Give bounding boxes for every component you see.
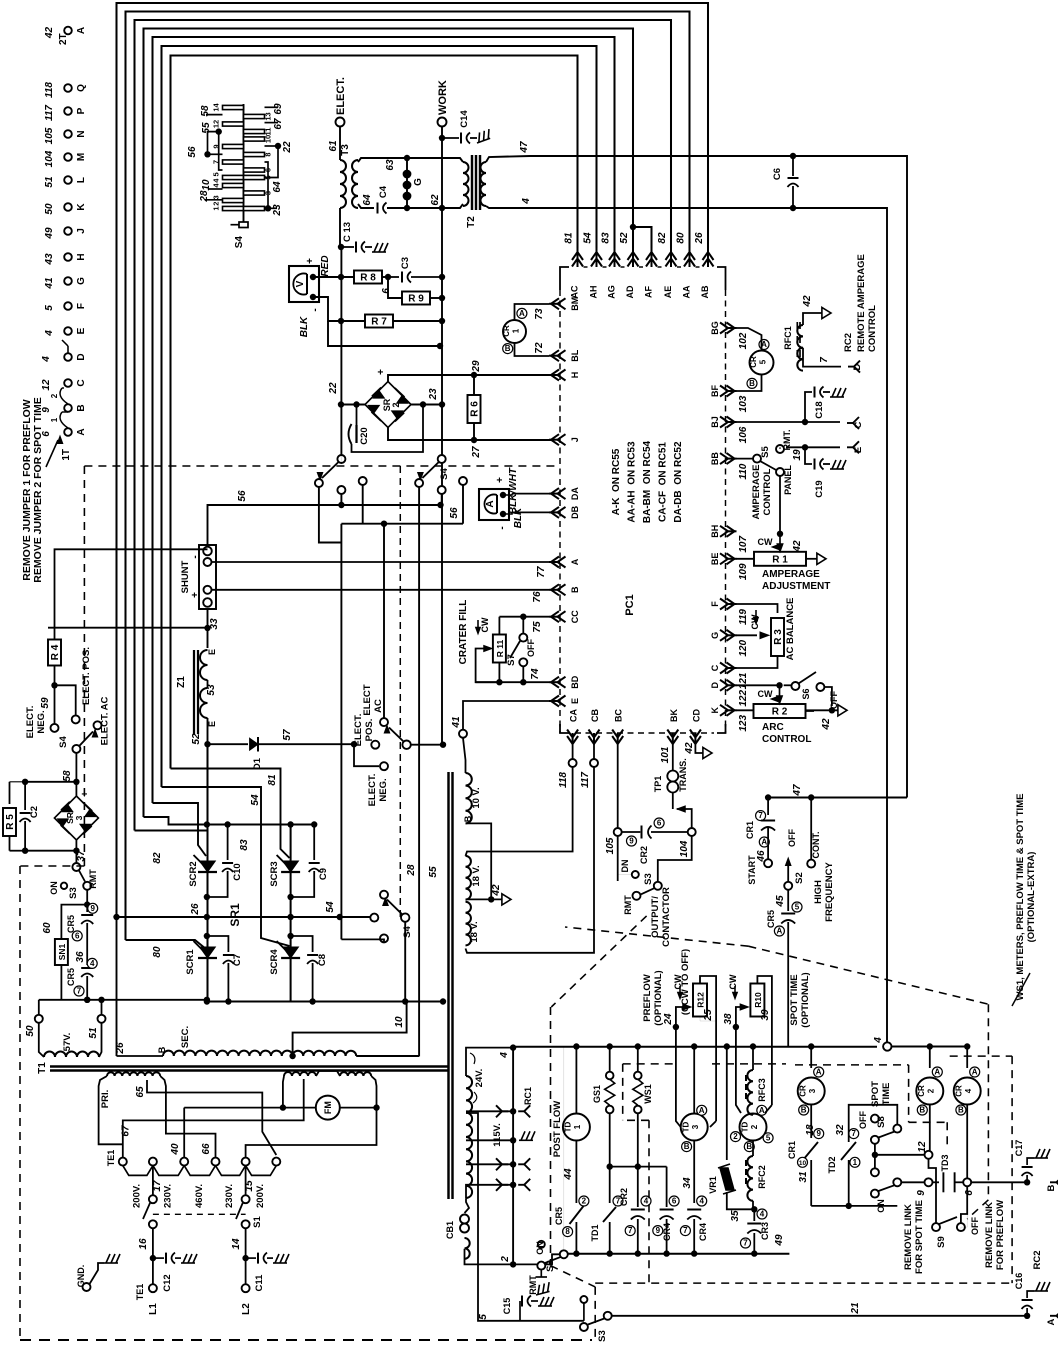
svg-text:G: G — [710, 632, 720, 639]
svg-text:POST FLOW: POST FLOW — [552, 1101, 563, 1158]
svg-text:FREQUENCY: FREQUENCY — [824, 862, 835, 922]
svg-text:9: 9 — [816, 1129, 821, 1138]
svg-text:+: + — [80, 791, 91, 797]
svg-text:54: 54 — [325, 901, 336, 913]
svg-text:RFC2: RFC2 — [757, 1165, 767, 1189]
transformer T2 main HF transformer — [439, 141, 532, 228]
svg-text:L1: L1 — [148, 1303, 159, 1315]
svg-text:+: + — [376, 369, 387, 375]
svg-text:CR4: CR4 — [698, 1223, 708, 1241]
svg-text:H: H — [76, 253, 87, 260]
svg-text:200V.: 200V. — [131, 1184, 142, 1208]
svg-text:7: 7 — [851, 1129, 856, 1138]
wire 81 to SCR3 gate — [171, 769, 290, 859]
svg-text:47: 47 — [792, 784, 803, 797]
svg-text:83: 83 — [239, 839, 250, 851]
svg-text:9: 9 — [90, 904, 95, 913]
line L1 with C12 — [135, 1228, 197, 1315]
svg-text:AE: AE — [663, 286, 673, 299]
wire 4 to right edge — [530, 208, 887, 1047]
svg-text:R 5: R 5 — [5, 814, 16, 830]
svg-text:B: B — [505, 344, 511, 353]
svg-text:TE1: TE1 — [135, 1284, 145, 1301]
svg-text:38: 38 — [723, 1013, 734, 1025]
svg-text:SR1: SR1 — [228, 903, 242, 927]
svg-text:RC2: RC2 — [843, 333, 854, 352]
label WS1 METERS optional extra — [1012, 794, 1037, 1006]
wire to C9/C10 top row — [144, 817, 207, 825]
svg-text:8: 8 — [264, 152, 273, 156]
svg-text:5: 5 — [766, 1133, 771, 1142]
svg-text:A: A — [777, 927, 783, 936]
wire AD-AF branch — [630, 224, 652, 248]
svg-text:NEG.: NEG. — [378, 778, 389, 801]
svg-text:AC BALANCE: AC BALANCE — [785, 598, 796, 661]
svg-text:CA-CF ON RC51: CA-CF ON RC51 — [658, 442, 669, 522]
svg-text:WORK: WORK — [437, 80, 449, 115]
svg-text:46: 46 — [756, 850, 767, 863]
switch S3 bottom poles — [528, 1047, 612, 1342]
svg-text:2: 2 — [500, 1256, 511, 1263]
svg-text:S7: S7 — [506, 654, 517, 666]
capacitor C16 — [1014, 1273, 1050, 1316]
capacitor C13 with ground — [338, 222, 388, 253]
svg-text:PC1: PC1 — [624, 594, 636, 615]
relay contact CR1 start circuit — [745, 794, 775, 884]
svg-text:67: 67 — [121, 1125, 132, 1137]
18V windings — [466, 856, 512, 946]
polarity selector S4 elect neg/ac/pos upper — [25, 647, 111, 785]
svg-text:+: + — [495, 477, 506, 483]
svg-text:4: 4 — [90, 959, 95, 968]
svg-text:64: 64 — [362, 194, 373, 206]
svg-text:M: M — [76, 153, 87, 161]
svg-text:BH: BH — [710, 525, 720, 538]
svg-text:NEG.: NEG. — [36, 710, 47, 733]
svg-text:53: 53 — [206, 684, 217, 696]
svg-text:42: 42 — [802, 295, 813, 308]
svg-text:BB: BB — [710, 452, 720, 465]
svg-text:E: E — [207, 649, 217, 655]
svg-text:230V.: 230V. — [224, 1184, 235, 1208]
svg-text:OFF: OFF — [970, 1217, 980, 1235]
primary tap selector row — [106, 1108, 280, 1208]
SHUNT — [180, 545, 549, 609]
svg-text:K: K — [76, 203, 87, 211]
svg-text:28: 28 — [406, 864, 417, 877]
terminal E wire 19 and C19 — [780, 441, 864, 497]
svg-text:CONT.: CONT. — [811, 832, 821, 859]
svg-text:4: 4 — [873, 1037, 884, 1044]
svg-text:22: 22 — [282, 141, 293, 154]
svg-text:V: V — [295, 280, 306, 287]
svg-text:33: 33 — [209, 618, 220, 630]
svg-text:CC: CC — [570, 610, 580, 623]
svg-text:106: 106 — [738, 426, 749, 443]
svg-text:S3: S3 — [68, 887, 79, 899]
svg-text:6: 6 — [381, 288, 392, 294]
svg-text:82: 82 — [657, 232, 668, 244]
relay contact CR1 HF — [502, 304, 549, 356]
svg-text:A: A — [934, 1068, 940, 1077]
svg-text:9: 9 — [656, 1226, 661, 1235]
svg-text:S6: S6 — [801, 688, 811, 699]
labels remove link — [903, 1200, 1006, 1274]
svg-text:49: 49 — [44, 227, 55, 240]
svg-text:BF: BF — [710, 385, 720, 397]
svg-text:D: D — [710, 682, 720, 689]
svg-text:26: 26 — [190, 903, 201, 916]
svg-text:E: E — [570, 698, 580, 704]
svg-text:ON: ON — [535, 1241, 545, 1255]
svg-text:ON: ON — [49, 881, 59, 895]
svg-text:C2: C2 — [29, 806, 40, 818]
svg-text:TD3: TD3 — [940, 1154, 950, 1171]
svg-text:PRI.: PRI. — [100, 1090, 111, 1108]
svg-text:42: 42 — [491, 884, 502, 897]
svg-text:S4: S4 — [402, 925, 413, 937]
svg-text:27: 27 — [471, 446, 482, 459]
snubber top row wire — [204, 821, 318, 827]
svg-text:C12: C12 — [162, 1274, 173, 1291]
svg-text:B: B — [746, 1142, 752, 1151]
svg-text:C18: C18 — [814, 401, 825, 418]
svg-text:CONTROL: CONTROL — [762, 734, 811, 745]
svg-text:7: 7 — [819, 357, 830, 363]
24V leader label — [479, 1050, 483, 1106]
svg-text:CA: CA — [569, 709, 579, 722]
wire loop x116.5 — [117, 3, 709, 917]
svg-text:65: 65 — [135, 1086, 146, 1098]
svg-text:104: 104 — [44, 150, 55, 167]
svg-text:45: 45 — [775, 895, 786, 908]
svg-text:J: J — [570, 437, 580, 442]
svg-text:E: E — [853, 447, 864, 453]
secondary SEC winding — [117, 1026, 357, 1059]
svg-text:5: 5 — [478, 1314, 489, 1320]
inductor RFC1 — [783, 295, 863, 373]
svg-text:R 11: R 11 — [495, 639, 505, 657]
svg-text:PREFLOW: PREFLOW — [642, 974, 653, 1022]
svg-text:119: 119 — [738, 609, 749, 625]
wire loop x161.5 — [162, 46, 597, 787]
svg-text:ELECT. AC: ELECT. AC — [100, 696, 111, 745]
svg-text:BE: BE — [710, 553, 720, 566]
ELECT AC contact wire up — [383, 524, 385, 718]
timer contact TD2 and S8 spot time — [811, 1081, 932, 1209]
svg-text:C17: C17 — [1014, 1140, 1024, 1157]
wire 26 left bus to SCR bus — [113, 903, 207, 920]
svg-text:3: 3 — [808, 1088, 817, 1093]
svg-text:13: 13 — [264, 112, 273, 120]
svg-text:BL: BL — [570, 349, 580, 361]
svg-text:A: A — [76, 27, 87, 34]
svg-text:AD: AD — [625, 285, 635, 298]
transformer T1 core — [37, 1062, 448, 1074]
svg-text:C16: C16 — [1014, 1273, 1024, 1290]
svg-text:26: 26 — [694, 232, 705, 245]
svg-text:DB: DB — [570, 505, 580, 518]
svg-text:A: A — [699, 1106, 705, 1115]
svg-text:77: 77 — [536, 566, 547, 578]
svg-text:104: 104 — [679, 840, 690, 857]
svg-text:C10: C10 — [232, 863, 243, 880]
resistor R8 — [313, 271, 388, 284]
svg-text:BC: BC — [614, 709, 624, 722]
svg-text:C: C — [76, 379, 87, 386]
svg-text:101: 101 — [660, 746, 671, 763]
svg-text:Q: Q — [76, 84, 87, 92]
svg-text:2: 2 — [927, 1088, 936, 1093]
svg-text:40: 40 — [170, 1143, 181, 1156]
svg-text:52: 52 — [191, 733, 202, 745]
snubber C7 — [207, 936, 243, 1005]
svg-text:34: 34 — [682, 1177, 693, 1189]
svg-text:SCR3: SCR3 — [269, 861, 280, 886]
switch ON and TD3 link — [871, 1154, 1058, 1212]
24V control bus top — [513, 1037, 970, 1051]
svg-text:OFF: OFF — [526, 639, 536, 657]
svg-text:118: 118 — [558, 772, 569, 788]
switch S5 panel/remote — [736, 430, 793, 534]
svg-text:67: 67 — [273, 118, 284, 130]
snubber C8 — [291, 936, 328, 1005]
potentiometer R10 spot time — [723, 972, 811, 1113]
svg-text:35: 35 — [730, 1210, 741, 1222]
svg-text:7: 7 — [628, 1226, 633, 1235]
svg-text:CW: CW — [673, 974, 683, 989]
svg-text:23: 23 — [272, 204, 283, 217]
svg-text:22: 22 — [328, 382, 339, 395]
svg-text:TE1: TE1 — [106, 1150, 116, 1167]
wire 47 start bus — [768, 797, 907, 799]
control bus bottom wire 49 — [568, 1234, 790, 1257]
svg-text:102: 102 — [738, 332, 749, 349]
svg-text:42: 42 — [821, 718, 832, 731]
svg-text:57: 57 — [282, 729, 293, 741]
svg-text:SCR1: SCR1 — [185, 949, 196, 975]
svg-text:A: A — [761, 838, 767, 847]
svg-text:117: 117 — [44, 105, 55, 121]
svg-text:+: + — [305, 258, 316, 264]
wire CB 117 to 18V winding bottom — [466, 741, 599, 953]
svg-text:122: 122 — [738, 690, 749, 707]
svg-text:SHUNT: SHUNT — [180, 560, 191, 593]
svg-text:4: 4 — [699, 1197, 704, 1206]
svg-text:ELECT.: ELECT. — [335, 77, 347, 115]
svg-text:C14: C14 — [459, 110, 470, 128]
svg-text:B: B — [919, 1106, 925, 1115]
svg-text:POS.: POS. — [364, 719, 375, 742]
svg-text:59: 59 — [40, 697, 51, 709]
svg-text:7: 7 — [743, 1239, 748, 1248]
svg-text:6: 6 — [964, 1190, 975, 1196]
svg-text:CR2: CR2 — [639, 846, 649, 864]
svg-text:14: 14 — [212, 103, 221, 112]
PC1 bottom edge with down chevrons CA CB BC BK CD — [560, 709, 726, 744]
svg-text:(OPTIONAL-EXTRA): (OPTIONAL-EXTRA) — [1026, 852, 1037, 943]
wire CD to chassis — [684, 741, 712, 759]
svg-text:ELECT.: ELECT. — [25, 706, 36, 739]
switch S9 preflow link — [929, 1159, 981, 1248]
dashed boundary bottom control box — [551, 916, 647, 1340]
svg-text:-: - — [310, 308, 321, 311]
svg-text:CONTROL: CONTROL — [762, 468, 773, 515]
svg-text:CW: CW — [758, 537, 773, 547]
wire 50 51 to 57V winding — [25, 997, 210, 1039]
svg-text:25: 25 — [703, 1009, 714, 1022]
capacitor CR5 spot — [766, 890, 802, 1047]
svg-text:ON: ON — [876, 1199, 886, 1213]
svg-text:51: 51 — [44, 176, 55, 188]
svg-text:105: 105 — [605, 837, 616, 854]
svg-text:N: N — [76, 130, 87, 137]
svg-text:1: 1 — [50, 417, 59, 422]
svg-text:61: 61 — [328, 140, 339, 152]
svg-text:BLK/WHT: BLK/WHT — [508, 467, 519, 514]
svg-text:CW: CW — [758, 689, 773, 699]
svg-text:TRANS.: TRANS. — [678, 758, 688, 792]
svg-text:76: 76 — [532, 591, 543, 603]
svg-text:120: 120 — [738, 640, 749, 657]
svg-text:-: - — [190, 555, 201, 558]
wire 82 to SCR2 gate — [152, 803, 206, 864]
svg-text:R 8: R 8 — [360, 273, 376, 284]
svg-text:19: 19 — [792, 449, 803, 461]
svg-text:A: A — [485, 500, 496, 507]
switch S2 start/off/cont — [784, 784, 835, 922]
circuit breaker CB1 — [445, 1198, 560, 1267]
svg-text:SN1: SN1 — [57, 943, 67, 960]
svg-text:CR1: CR1 — [745, 821, 755, 839]
svg-text:RC2: RC2 — [1032, 1250, 1043, 1269]
svg-text:S1: S1 — [252, 1215, 263, 1227]
upper S4 output contactor poles — [315, 455, 467, 1056]
svg-text:TD1: TD1 — [590, 1224, 600, 1241]
potentiometer R3 AC balance — [736, 598, 796, 668]
terminal WORK — [437, 80, 449, 744]
svg-text:10: 10 — [799, 1160, 807, 1167]
svg-text:74: 74 — [530, 668, 541, 680]
thyristor SCR1 — [185, 933, 217, 975]
voltmeter V — [289, 255, 331, 337]
terminal C of RC2 — [736, 417, 864, 429]
svg-text:K: K — [710, 707, 720, 714]
resistor R6 — [468, 375, 481, 440]
switch gang dashed link S4 — [399, 466, 401, 920]
svg-text:12: 12 — [212, 120, 221, 128]
svg-text:28: 28 — [199, 190, 210, 203]
svg-text:5: 5 — [759, 359, 768, 364]
svg-text:52: 52 — [619, 232, 630, 244]
svg-text:14: 14 — [231, 1238, 242, 1250]
ground GND — [76, 1254, 120, 1291]
PC1 left edge with chevrons — [549, 290, 580, 733]
svg-text:L2: L2 — [241, 1303, 252, 1315]
svg-text:TP1: TP1 — [653, 776, 663, 793]
inductor RFC3 + timer TD2 + RFC2 chain — [731, 1047, 774, 1213]
svg-text:23: 23 — [428, 388, 439, 401]
svg-text:80: 80 — [676, 232, 687, 244]
svg-text:56: 56 — [187, 146, 198, 158]
wire 26 to T1 secondary — [115, 770, 126, 1056]
svg-text:GS1: GS1 — [592, 1085, 602, 1103]
svg-text:69: 69 — [273, 103, 284, 115]
svg-text:47: 47 — [519, 141, 530, 154]
10V winding — [463, 738, 491, 899]
svg-text:51: 51 — [88, 1027, 99, 1039]
svg-text:HIGH: HIGH — [813, 880, 824, 904]
svg-text:6: 6 — [657, 819, 662, 828]
svg-text:1T: 1T — [61, 449, 72, 461]
svg-text:109: 109 — [738, 563, 749, 580]
label OUTPUT/CONTACTOR — [650, 887, 691, 1015]
wire 73 BM to CR1 — [548, 303, 550, 305]
svg-text:ELECT.: ELECT. — [367, 774, 378, 807]
svg-text:10 V.: 10 V. — [471, 787, 482, 808]
svg-text:C 13: C 13 — [342, 222, 353, 242]
varistor VR1 — [708, 1047, 754, 1222]
svg-text:RMT: RMT — [623, 895, 633, 915]
bridge rectifier SR2 — [328, 369, 439, 428]
thyristor SCR2 — [188, 855, 217, 887]
svg-text:S5: S5 — [760, 445, 771, 457]
svg-text:24: 24 — [663, 1013, 674, 1026]
svg-text:1: 1 — [212, 206, 221, 210]
svg-text:D: D — [76, 353, 87, 360]
svg-text:42: 42 — [684, 742, 695, 755]
svg-text:2: 2 — [50, 393, 59, 398]
svg-text:RC1: RC1 — [523, 1087, 533, 1105]
svg-text:VR1: VR1 — [708, 1176, 718, 1194]
primary PRI winding — [99, 1071, 377, 1157]
C15 tap box — [466, 1113, 584, 1321]
resistor R7 — [313, 247, 445, 455]
svg-text:BK: BK — [669, 709, 679, 722]
range switch S4 wafer stack — [212, 103, 273, 249]
svg-text:3: 3 — [74, 815, 84, 820]
svg-text:2: 2 — [733, 1132, 738, 1141]
svg-text:BG: BG — [710, 321, 720, 335]
svg-text:4: 4 — [760, 1210, 765, 1219]
svg-text:R 1: R 1 — [772, 554, 788, 565]
svg-text:CB1: CB1 — [445, 1221, 455, 1239]
svg-text:A: A — [972, 1068, 978, 1077]
wire loop x170.5 — [171, 56, 578, 769]
timer TD3 with R12 preflow — [680, 1047, 708, 1254]
svg-text:41: 41 — [44, 277, 55, 290]
switch S3 on/rmt lower-left — [49, 863, 98, 908]
relay capacitor CR2 output — [605, 818, 688, 864]
svg-text:AH: AH — [589, 286, 599, 299]
svg-text:BJ: BJ — [710, 416, 720, 428]
potentiometer R2 arc control with S6 — [736, 672, 847, 745]
svg-text:55: 55 — [428, 866, 439, 878]
svg-text:460V.: 460V. — [194, 1184, 205, 1208]
svg-text:SCR2: SCR2 — [188, 861, 199, 886]
svg-text:CRATER FILL: CRATER FILL — [458, 600, 469, 665]
svg-text:D: D — [852, 363, 863, 370]
svg-text:AA: AA — [682, 285, 692, 298]
svg-text:50: 50 — [44, 203, 55, 215]
svg-text:117: 117 — [580, 772, 591, 788]
label RC2 REMOTE AMPERAGE CONTROL — [843, 254, 878, 352]
primary tap wire 67 — [121, 1079, 304, 1157]
svg-text:OFF: OFF — [787, 829, 797, 847]
svg-text:REMOVE JUMPER 2 FOR SPOT TIME: REMOVE JUMPER 2 FOR SPOT TIME — [32, 397, 44, 583]
svg-text:41: 41 — [451, 716, 462, 729]
57V winding — [39, 1023, 102, 1057]
